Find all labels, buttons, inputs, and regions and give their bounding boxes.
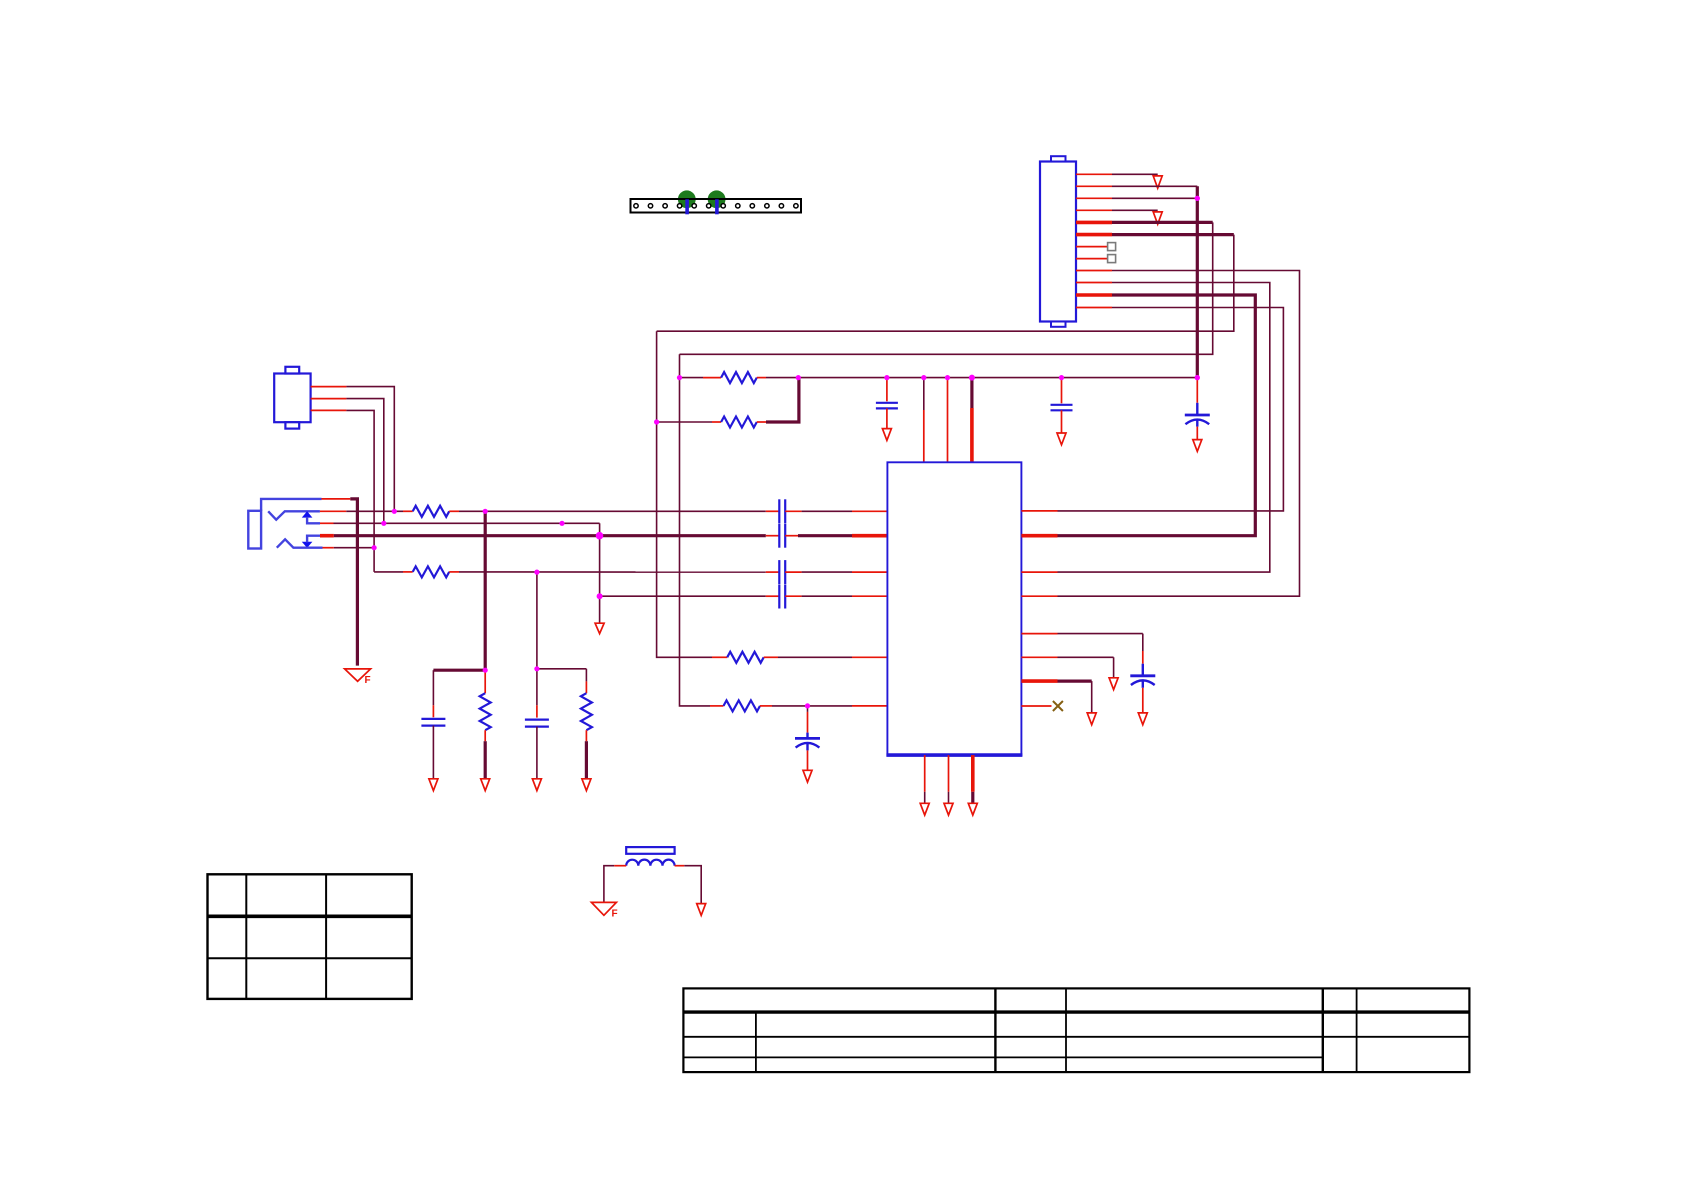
ground GND15: [920, 803, 929, 815]
LED D1 (green): [678, 190, 696, 208]
chassis ground F2: [591, 902, 617, 919]
wire P1 pin3 to ring line: [346, 410, 374, 572]
wire net6 vertical: [657, 331, 712, 657]
ground GND17: [968, 803, 977, 815]
capacitor C6 lead: [1196, 378, 1198, 403]
ground GND13: [1109, 678, 1118, 690]
wire CN1 pin4 to ground: [1112, 209, 1158, 211]
wire tip net to cap: [459, 510, 766, 512]
ground GND8: [582, 779, 591, 791]
wire gnd-sense cap red: [766, 595, 780, 597]
jack J1 tip contact: [268, 511, 320, 519]
wire U1 top pin3 thick: [970, 378, 973, 463]
transformer L1 core: [626, 847, 674, 854]
wire ring net: [334, 547, 374, 549]
capacitor C11 (polarized): [1130, 664, 1155, 688]
capacitor C10 lower lead: [1061, 410, 1063, 433]
capacitor C1 lower lead: [432, 726, 434, 779]
inductor L1 winding: [626, 860, 674, 866]
connector J3 holes: [634, 204, 798, 208]
resistor R6: [710, 700, 772, 711]
wire U1 bottom pin1: [924, 755, 926, 803]
capacitor C3: [779, 499, 785, 523]
wire ring resistor feed: [374, 571, 403, 573]
table: title block: [683, 988, 1469, 1072]
wire U1 bottom pin3 thick: [971, 755, 975, 803]
wire ring cap red: [766, 571, 780, 573]
wire net5 vertical: [680, 354, 711, 706]
connector J3 outline: [631, 199, 802, 213]
capacitor C8 lead: [807, 706, 809, 733]
resistor R3 lower wire: [484, 741, 487, 779]
wire net6 routing: [657, 235, 1234, 332]
junction node VCC cap: [1195, 375, 1200, 380]
wire R5 to U1: [778, 656, 887, 658]
wire CN1 pin9 to U1 right pin4: [1058, 271, 1300, 597]
resistor R3 leads: [480, 670, 491, 741]
no-connect X U1 pinR8: [1053, 701, 1063, 711]
wire U1 bottom pin2: [948, 755, 950, 803]
wire CN1 pin11 to U1 right pin2: [1058, 295, 1256, 536]
chassis ground F1: [345, 669, 371, 686]
wire U1 pinR5 to cap: [1058, 634, 1143, 664]
wire bias node line: [680, 377, 704, 379]
wire tip-switch to ground bus: [599, 523, 601, 623]
resistor R8: [712, 417, 766, 428]
connector CN1 pins 1-12: [1076, 174, 1112, 307]
jack J1 sleeve contact: [261, 499, 321, 511]
wire VCC vertical bus: [1196, 186, 1199, 377]
ground GND7: [532, 779, 541, 791]
ground GND14: [1087, 713, 1096, 725]
wire C4 to U1 thick: [785, 535, 887, 537]
ground GND2: [1153, 212, 1162, 224]
connector P1 pin1: [311, 386, 347, 388]
wire ring-switch red: [320, 534, 334, 538]
capacitor C10 lead: [1061, 378, 1063, 404]
wire ring red: [323, 547, 334, 549]
capacitor C2: [525, 720, 549, 727]
wire ring net to cap: [459, 571, 766, 573]
resistor R5: [712, 652, 778, 663]
capacitor C9: [876, 403, 898, 409]
wire L1 right lead: [675, 866, 702, 904]
wire tip-switch red: [320, 522, 334, 524]
wire ring-switch cap red: [766, 535, 780, 537]
ground GND5: [429, 779, 438, 791]
wire CN1 pin6: [1112, 233, 1234, 236]
resistor R4 leads: [581, 669, 592, 741]
wire CN1 pin3 net VCC: [1112, 197, 1197, 199]
resistor R4 lower wire: [585, 741, 588, 779]
wire sleeve net: [322, 498, 351, 500]
connector J3 pin-strip body: [631, 199, 802, 213]
capacitor C9 lower lead: [886, 408, 888, 428]
LED D1 lead: [685, 199, 689, 214]
wire gnd-sense net: [600, 595, 766, 597]
ground GND3: [1193, 440, 1202, 452]
no-connect square CN1 pin8: [1108, 255, 1116, 263]
svg-text:F: F: [365, 675, 371, 686]
wire sleeve to chassis ground: [350, 499, 357, 666]
ground GND4: [595, 623, 604, 633]
wire L1 left lead: [604, 866, 626, 902]
wire tip net red: [320, 510, 346, 512]
capacitor C10: [1051, 405, 1073, 411]
wire CN1 pin1 to ground: [1112, 173, 1158, 175]
LED D2 lead: [715, 199, 719, 214]
capacitor C7: [779, 585, 785, 609]
ground GND16: [944, 803, 953, 815]
capacitor C8 lower lead: [807, 750, 809, 770]
connector P1 pin3: [311, 409, 347, 411]
capacitor C4: [779, 524, 785, 548]
connector P1 body: [274, 367, 310, 429]
wire R6 to U1: [772, 705, 887, 707]
capacitor C1: [421, 719, 445, 726]
capacitor C9 lead: [886, 378, 888, 402]
capacitor C2 lower lead: [536, 727, 538, 779]
resistor R8 row: [657, 421, 712, 423]
capacitor C2 lead: [536, 669, 538, 718]
wire C5 to U1: [785, 571, 887, 573]
wire tip net: [346, 510, 403, 512]
connector CN1 body: [1040, 156, 1076, 327]
capacitor C6 (polarized): [1185, 403, 1210, 427]
ground GND12: [1138, 713, 1147, 725]
wire P1 pin1 to tip line: [346, 387, 394, 512]
wire bias node line cont: [766, 377, 1197, 379]
resistor R1: [403, 506, 459, 517]
ground GND11: [1057, 433, 1066, 445]
jack J1 ring switch arrow: [302, 536, 320, 548]
jack J1 tip switch arrow: [302, 511, 320, 523]
wire C3 to U1: [785, 510, 887, 512]
wire U1 pinR7 to ground: [1058, 681, 1092, 713]
wire CN1 pin2 net VCC: [1112, 185, 1197, 187]
capacitor C8 (polarized): [795, 733, 820, 751]
capacitor C6 lower lead: [1196, 427, 1198, 440]
svg-text:F: F: [612, 909, 618, 920]
LED D2 (green): [708, 190, 726, 208]
resistor R7: [703, 372, 766, 383]
ground GND6: [481, 779, 490, 791]
U1 right pin stubs: [1021, 511, 1057, 706]
wire RC tie bar: [433, 669, 485, 672]
ground GND1: [1153, 176, 1162, 188]
connector P1 pin2: [311, 398, 347, 400]
capacitor C5: [779, 560, 785, 584]
resistor R2: [403, 566, 459, 577]
wire R8 up to bias node: [766, 378, 799, 422]
wire RC tie bar 2: [537, 668, 587, 670]
wire ring-switch net thick: [334, 534, 766, 537]
wire C7 to U1: [785, 595, 887, 597]
wire CN1 pin12 to U1 right pin1: [1058, 308, 1284, 511]
capacitor C11 lower lead: [1142, 688, 1144, 713]
table: revision block: [208, 874, 412, 999]
wire tip-switch net: [334, 522, 600, 524]
ground GND10: [882, 429, 891, 441]
jack J1 body: [248, 511, 261, 549]
junction node VCC pin3: [1195, 196, 1200, 201]
wire U1 top pin1: [923, 378, 925, 463]
wire net5 routing: [680, 222, 1213, 354]
wire ring net to RC: [536, 572, 538, 669]
op-amp/codec U1: [886, 462, 1022, 755]
wire P1 pin2 to tip-switch line: [346, 399, 383, 524]
ground GND18: [697, 904, 706, 916]
wire U1 top pin2: [947, 378, 949, 463]
junction dots: [372, 196, 1200, 709]
wire CN1 pin5: [1112, 221, 1213, 224]
jack J1 ring contact: [277, 539, 323, 547]
no-connect square CN1 pin7: [1108, 243, 1116, 251]
wire CN1 pin10 to U1 right pin3: [1058, 283, 1270, 573]
wire tip net to RC: [484, 511, 487, 670]
ground GND9: [803, 770, 812, 782]
capacitor C1 lead: [432, 670, 434, 717]
wire tip cap red: [766, 510, 780, 512]
wire U1 pinR6 to ground: [1058, 657, 1114, 678]
